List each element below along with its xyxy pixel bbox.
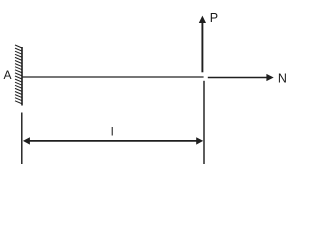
beam (bar) (23, 76, 204, 78)
force P arrow shaft (201, 22, 203, 72)
force P arrowhead (199, 16, 206, 23)
right extension line (203, 81, 205, 164)
svg-text:l: l (111, 125, 114, 139)
wall hatching (15, 45, 22, 104)
dimension left arrowhead (23, 137, 30, 144)
svg-text:P: P (210, 11, 218, 25)
svg-text:N: N (278, 72, 287, 86)
svg-text:A: A (4, 68, 12, 82)
wall line (fixed support) (21, 47, 23, 106)
force N arrowhead (266, 74, 273, 81)
force N arrow shaft (208, 77, 268, 79)
left extension line (21, 113, 23, 165)
dimension line shaft (28, 140, 198, 142)
dimension right arrowhead (196, 137, 203, 144)
